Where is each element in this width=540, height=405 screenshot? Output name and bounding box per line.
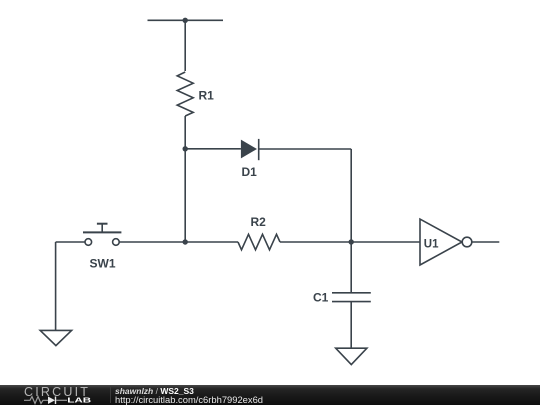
wire U1 output — [472, 241, 500, 243]
footer separator — [110, 387, 111, 403]
power rail node — [148, 19, 224, 21]
footer bar — [0, 385, 540, 405]
svg-text:U1: U1 — [424, 238, 439, 250]
wire SW1 left lead — [56, 241, 86, 243]
capacitor C1 bottom plate — [332, 301, 371, 303]
svg-text:R2: R2 — [251, 215, 267, 229]
U1 inverting bubble — [462, 237, 472, 247]
resistor R1 — [177, 72, 193, 116]
svg-text:C1: C1 — [313, 291, 329, 305]
ground right — [336, 348, 367, 364]
wire to diode D1 anode — [185, 148, 241, 150]
switch SW1 left terminal — [85, 239, 92, 246]
svg-text:LAB: LAB — [67, 396, 91, 404]
wire node A down to left ground — [55, 242, 57, 330]
junction dot node B — [349, 239, 354, 244]
wire diode to right branch — [259, 148, 352, 150]
svg-text:SW1: SW1 — [90, 257, 116, 271]
switch SW1 actuator bar — [83, 231, 121, 233]
junction dot diode tap — [183, 146, 188, 151]
wire right branch down to node B — [350, 149, 352, 293]
junction dot on rail — [183, 18, 188, 23]
diode D1 cathode bar — [258, 139, 260, 160]
switch SW1 right terminal — [113, 239, 120, 246]
junction dot node A — [183, 239, 188, 244]
wire SW1 to R2 — [119, 241, 238, 243]
footer credit line — [115, 387, 194, 396]
svg-text:D1: D1 — [242, 165, 258, 179]
capacitor C1 top plate — [332, 292, 371, 294]
diode D1 — [241, 140, 257, 159]
switch SW1 button cap — [97, 223, 108, 225]
op-amp U1 inverter triangle — [420, 219, 462, 265]
resistor R2 — [238, 234, 280, 250]
wire rail to R1 — [184, 20, 186, 71]
svg-text:R1: R1 — [199, 89, 215, 103]
switch SW1 stem — [101, 224, 103, 232]
wire C1 to right ground — [350, 302, 352, 349]
wire R1 to node A — [184, 116, 186, 242]
wire R2 to U1 input — [280, 241, 420, 243]
footer url line — [115, 395, 263, 404]
CircuitLab logo — [0, 385, 110, 405]
ground left — [40, 330, 71, 345]
